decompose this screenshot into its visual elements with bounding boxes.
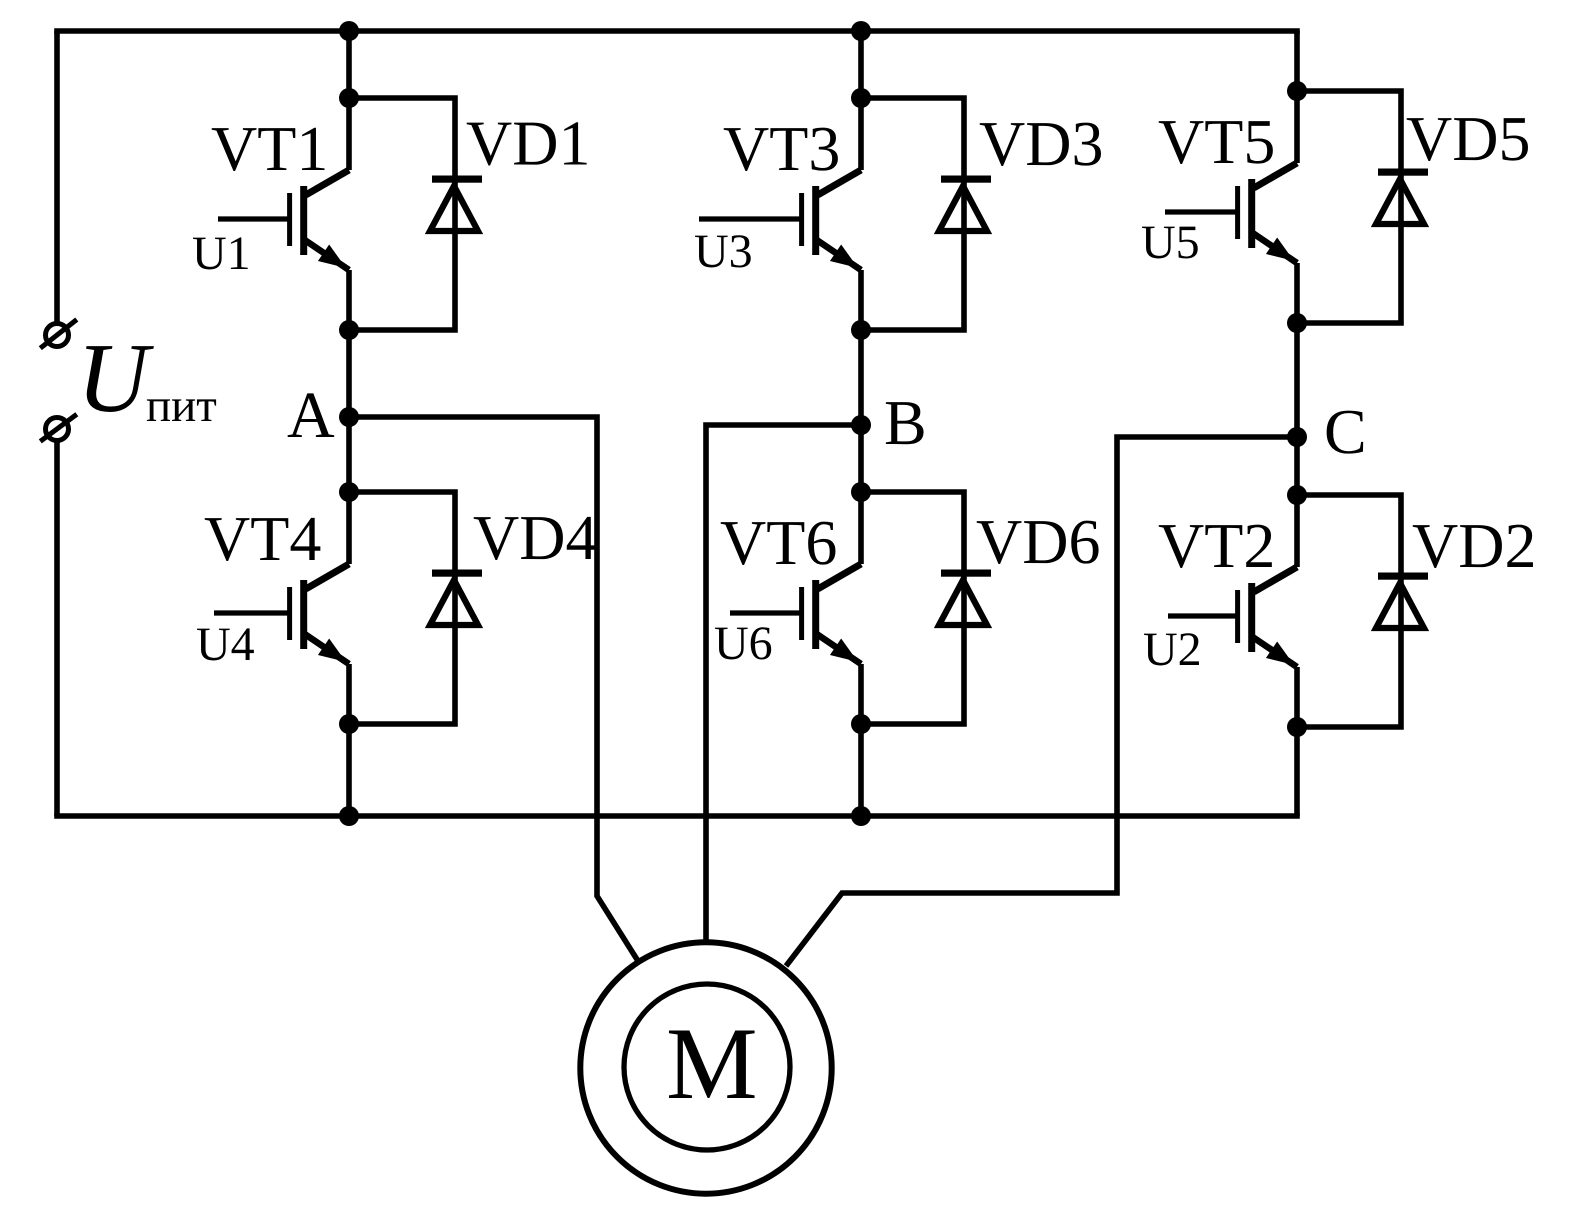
svg-text:VT3: VT3 (723, 113, 840, 184)
svg-text:пит: пит (146, 380, 217, 432)
svg-text:U6: U6 (714, 617, 773, 670)
svg-text:M: M (666, 1007, 758, 1121)
svg-text:U3: U3 (694, 225, 753, 278)
svg-text:U2: U2 (1143, 623, 1202, 676)
svg-text:VD4: VD4 (473, 502, 597, 573)
svg-text:A: A (287, 379, 335, 452)
svg-text:U5: U5 (1141, 216, 1200, 269)
svg-text:B: B (884, 387, 927, 458)
svg-text:VD1: VD1 (466, 108, 590, 179)
svg-text:VD5: VD5 (1406, 103, 1530, 174)
svg-text:VT4: VT4 (204, 503, 321, 574)
svg-text:U1: U1 (192, 227, 251, 280)
svg-text:VT2: VT2 (1158, 510, 1275, 581)
svg-text:VD2: VD2 (1412, 510, 1536, 581)
svg-text:C: C (1324, 396, 1367, 467)
svg-text:VT5: VT5 (1158, 106, 1275, 177)
svg-text:VD3: VD3 (979, 108, 1103, 179)
svg-text:VT6: VT6 (720, 507, 837, 578)
svg-text:VD6: VD6 (976, 506, 1100, 577)
svg-text:VT1: VT1 (211, 113, 328, 184)
svg-text:U: U (77, 324, 154, 433)
svg-text:U4: U4 (196, 618, 255, 671)
